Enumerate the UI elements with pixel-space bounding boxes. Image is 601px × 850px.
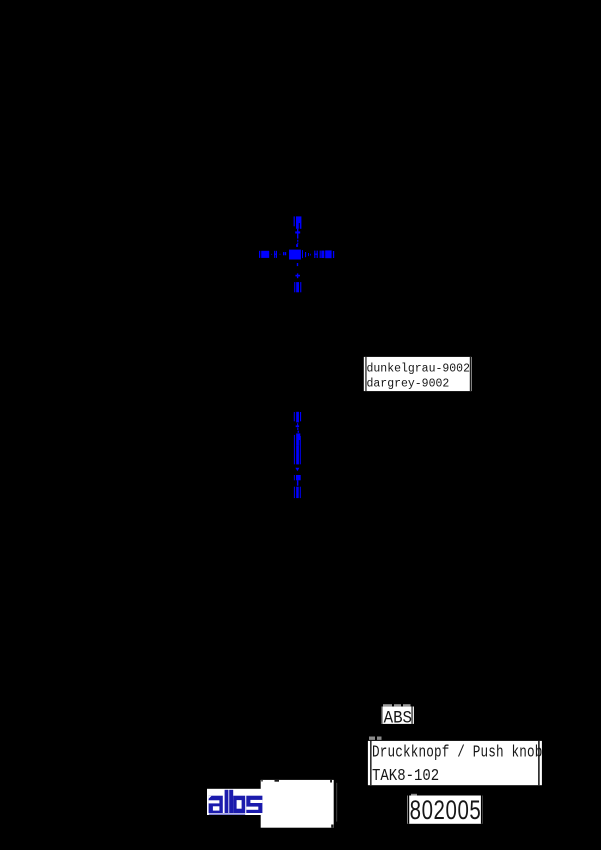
albs logo letter s xyxy=(246,796,262,813)
material text ABS xyxy=(384,709,412,729)
right dimension text (cross arm) xyxy=(314,250,334,258)
label text dunkelgrau-9002 xyxy=(367,361,470,375)
side view: tall body bars xyxy=(294,433,301,464)
center hub block (knob top view) xyxy=(289,244,303,266)
logo field right hairline xyxy=(336,783,337,822)
article number box xyxy=(408,796,483,824)
logo field right patch xyxy=(261,780,334,828)
albs logo letter a xyxy=(209,796,223,813)
side view: top bars xyxy=(294,412,301,423)
type text TAK8-102 xyxy=(372,766,439,785)
logo field left patch xyxy=(207,789,263,815)
arrow down (top centerline) xyxy=(295,229,300,244)
right small ticks xyxy=(305,252,311,257)
left dimension text (cross arm) xyxy=(259,251,286,258)
arrow down (bottom centerline) xyxy=(295,273,300,278)
side view: lower text block xyxy=(294,475,301,486)
dimension ticks bottom of top view xyxy=(294,282,301,292)
article number remnant xyxy=(411,794,417,796)
svg-text:Druckknopf / Push knob: Druckknopf / Push knob xyxy=(372,744,542,762)
colour label box xyxy=(364,357,472,391)
svg-text:dargrey-9002: dargrey-9002 xyxy=(367,376,450,390)
material box ABS xyxy=(381,707,414,724)
dimension text top arm xyxy=(294,216,302,229)
svg-text:TAK8-102: TAK8-102 xyxy=(372,766,439,785)
albs logo underline xyxy=(209,814,245,815)
svg-text:ABS: ABS xyxy=(384,709,412,729)
title row remnant above description box xyxy=(369,737,382,740)
albs logo letter b xyxy=(229,790,245,813)
side view: upper arrow xyxy=(296,423,299,433)
side view: bottom bars xyxy=(294,487,301,498)
svg-text:dunkelgrau-9002: dunkelgrau-9002 xyxy=(367,361,470,375)
side view: lower arrowhead xyxy=(295,468,299,471)
article number text 802005 xyxy=(410,796,482,825)
material row remnant above ABS xyxy=(383,704,411,706)
albs logo letter l xyxy=(225,790,229,813)
label text dargrey-9002 xyxy=(367,376,450,390)
description box xyxy=(368,741,542,785)
description text Druckknopf / Push knob xyxy=(372,744,542,762)
svg-text:802005: 802005 xyxy=(410,796,482,825)
